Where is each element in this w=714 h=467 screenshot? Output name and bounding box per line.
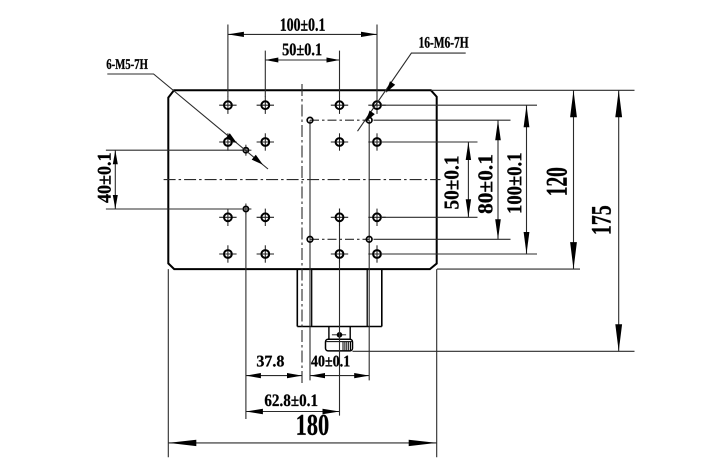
dimension 37.8 bottom <box>246 356 302 379</box>
extension line row 50-dim top <box>381 141 478 143</box>
leader 6-M5-7H <box>107 59 268 169</box>
extension line col 100-dim left <box>227 25 229 98</box>
extension line col 50-dim right <box>339 51 341 97</box>
M6 tapped hole row2 col1 <box>219 133 236 150</box>
knob center dot <box>332 332 346 338</box>
dimension 40±0.1 bottom <box>310 356 369 379</box>
M6 tapped hole row3 col4 <box>368 209 385 226</box>
M6 tapped hole row4 col2 <box>257 245 274 262</box>
knob body <box>326 339 353 351</box>
lower block inner right edge <box>366 269 368 326</box>
M5 bolt rectangle right side / extension <box>368 120 370 380</box>
M6 tapped hole row4 col1 <box>219 245 236 262</box>
M5 tapped hole left lower <box>240 204 251 215</box>
dimension 80±0.1 vertical <box>478 120 501 239</box>
dimension 100±0.1 top <box>228 18 377 37</box>
M6 tapped hole row4 col4 <box>368 245 385 262</box>
base plate outline with chamfered corners <box>168 90 436 269</box>
M5 tapped hole rect bottom-left <box>307 237 313 243</box>
M6 tapped hole row2 col2 <box>257 133 274 150</box>
extension line plate top edge right <box>431 89 635 91</box>
extension line plate bottom edge right <box>437 268 580 270</box>
knob neck right edge <box>349 327 351 340</box>
extension line plate left edge bottom <box>167 269 169 457</box>
extension line row 100-dim bottom <box>381 253 537 255</box>
M6 tapped hole row3 col1 <box>219 209 236 226</box>
dimension 175 right <box>592 90 622 351</box>
dimension 120 right <box>547 90 577 269</box>
M6 tapped hole row1 col1 <box>219 97 236 114</box>
extension line M5 column bottom <box>245 212 247 419</box>
dimension 62.8±0.1 bottom <box>246 394 340 414</box>
lower block left edge <box>296 269 298 326</box>
extension line row 50-dim bottom <box>381 216 478 218</box>
M6 tapped hole row4 col3 <box>331 245 348 262</box>
extension line knob bottom <box>353 350 635 352</box>
extension line M5 holes left lower <box>106 208 244 210</box>
M5 bolt rectangle bottom centerline <box>310 238 369 240</box>
extension line M5 holes left upper <box>106 149 244 151</box>
M5 tapped hole rect top-right <box>366 117 372 123</box>
dimension 100±0.1 vertical <box>507 105 529 254</box>
M5 tapped hole left upper <box>240 145 251 156</box>
extension line col 50-dim left <box>264 51 266 97</box>
M6 tapped hole row1 col4 <box>368 97 385 114</box>
extension line col 100-dim right <box>376 25 378 98</box>
M5 bolt rectangle top centerline <box>310 119 369 121</box>
extension line row 80-dim bottom <box>374 238 511 240</box>
lower block inner left edge <box>311 269 313 326</box>
M6 tapped hole row2 col3 <box>331 133 348 150</box>
leader 16-M6-7H <box>358 37 469 131</box>
knob chamfer line <box>326 341 352 343</box>
dimension 50±0.1 top <box>265 43 339 62</box>
vertical centerline <box>301 84 303 383</box>
M6 tapped hole row1 col2 <box>257 97 274 114</box>
dimension 40±0.1 left <box>98 150 118 209</box>
lower block right edge <box>381 269 383 326</box>
M6 tapped hole row3 col3 <box>331 209 348 226</box>
M6 tapped hole row1 col3 <box>331 97 348 114</box>
knob neck left edge <box>328 327 330 340</box>
dimension 180 bottom <box>168 415 436 446</box>
dimension 50±0.1 vertical <box>444 142 471 217</box>
horizontal centerline <box>164 179 441 181</box>
platform centerline through knob <box>339 209 341 416</box>
extension line plate right edge bottom <box>436 269 438 457</box>
M5 bolt rectangle left side / extension <box>309 120 311 380</box>
M5 tapped hole rect top-left <box>307 117 313 123</box>
extension line row 80-dim top <box>374 119 511 121</box>
M6 tapped hole row3 col2 <box>257 209 274 226</box>
extension line row 100-dim top <box>381 104 537 106</box>
lower block bottom edge <box>297 326 382 328</box>
knob knurling <box>343 342 351 351</box>
M5 tapped hole rect bottom-right <box>366 237 372 243</box>
M6 tapped hole row2 col4 <box>368 133 385 150</box>
